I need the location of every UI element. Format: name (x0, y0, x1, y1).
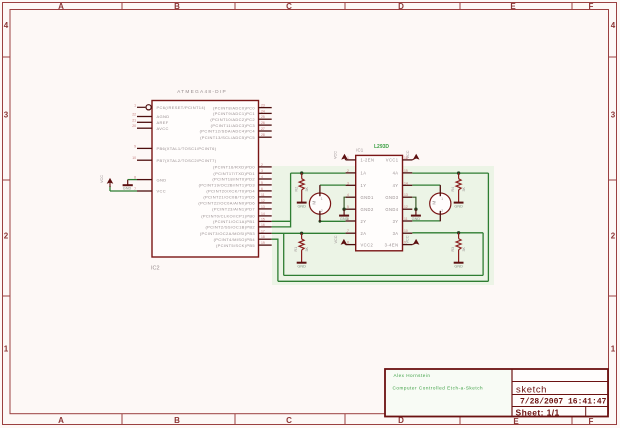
wire PB2 to vertical (272, 173, 291, 227)
frame ticks left (3, 57, 11, 296)
IC2 ATMEGA48 body (152, 101, 259, 258)
svg-text:2: 2 (347, 169, 349, 173)
wire 4A run (412, 172, 488, 174)
svg-text:4: 4 (4, 21, 9, 30)
frame row labels right (611, 21, 616, 354)
IC2 left pins AGND AREF AVCC PB6 PB7 GND VCC (137, 117, 152, 192)
svg-text:7/28/2007 16:41:47: 7/28/2007 16:41:47 (520, 398, 607, 407)
wire 4Y to motor M2 top (412, 184, 440, 186)
wire bus1 lower run (284, 274, 483, 276)
svg-text:GND1: GND1 (361, 195, 374, 200)
VCC arrow at pin 9 (412, 243, 416, 245)
wire GND3-GND4 link (412, 197, 416, 209)
IC1 right pin labels (385, 158, 399, 248)
wire bus2 rise to 4A (487, 173, 489, 281)
svg-text:M: M (311, 201, 316, 205)
ground under R2 (297, 202, 307, 204)
junction dot GND2 (342, 208, 345, 211)
svg-text:GND3: GND3 (385, 195, 398, 200)
svg-text:2: 2 (441, 209, 443, 213)
svg-text:12: 12 (261, 199, 265, 203)
svg-text:(PCINT20/XCK/T0)PD4: (PCINT20/XCK/T0)PD4 (206, 189, 255, 194)
svg-text:18: 18 (261, 235, 265, 239)
svg-text:3K: 3K (462, 187, 466, 192)
svg-text:A: A (58, 416, 64, 425)
svg-text:GND: GND (454, 204, 463, 208)
svg-text:10: 10 (404, 229, 408, 233)
svg-text:C: C (286, 2, 292, 11)
wire PB1 to vertical (272, 220, 291, 222)
svg-text:13: 13 (261, 205, 265, 209)
IC1 left pin labels (361, 158, 375, 248)
svg-text:R3: R3 (451, 247, 455, 252)
svg-text:3Y: 3Y (393, 219, 399, 224)
svg-text:D: D (398, 2, 404, 11)
VCC arrow at pin 8 (344, 243, 345, 245)
svg-text:4A: 4A (393, 171, 399, 176)
svg-text:B: B (174, 416, 180, 425)
svg-text:F: F (589, 417, 594, 426)
svg-text:(PCINT21/OC0B/T1)PD5: (PCINT21/OC0B/T1)PD5 (203, 195, 255, 200)
svg-text:GND: GND (297, 264, 306, 268)
svg-text:3K: 3K (305, 247, 309, 252)
ground symbol under pins 4-5 (343, 209, 345, 215)
svg-text:R4: R4 (451, 187, 455, 192)
svg-text:3: 3 (4, 111, 9, 120)
svg-text:E: E (513, 417, 519, 426)
svg-text:13: 13 (404, 193, 408, 197)
resistor R1 (299, 233, 304, 262)
title block outline (385, 369, 608, 417)
svg-text:1: 1 (321, 197, 323, 201)
svg-text:IC1: IC1 (356, 148, 363, 153)
wire 3A run (412, 232, 483, 234)
IC2 left pin labels (157, 105, 217, 194)
svg-text:AREF: AREF (157, 120, 169, 125)
IC2 right pins PD0-PD7 (259, 167, 272, 209)
junction dot R2 top (300, 171, 303, 174)
svg-text:1: 1 (611, 345, 616, 354)
svg-text:3A: 3A (393, 231, 399, 236)
IC2 right pins PC0-PC5 (259, 108, 272, 138)
svg-text:12: 12 (404, 205, 408, 209)
ground under R1 (297, 262, 307, 264)
svg-text:15: 15 (261, 217, 265, 221)
motor M1 (309, 193, 330, 214)
svg-text:2: 2 (611, 231, 616, 240)
svg-text:2: 2 (261, 163, 263, 167)
svg-text:2: 2 (4, 231, 9, 240)
svg-text:26: 26 (261, 121, 265, 125)
svg-text:16: 16 (261, 223, 265, 227)
svg-text:(PCINT2/SS/OC1B)PB2: (PCINT2/SS/OC1B)PB2 (205, 225, 255, 230)
svg-text:3K: 3K (462, 247, 466, 252)
svg-text:GND4: GND4 (385, 207, 398, 212)
wire PB3 to 2A (272, 232, 346, 234)
supply VCC arrow left of IC2 (109, 186, 111, 191)
svg-text:4: 4 (261, 175, 263, 179)
svg-text:19: 19 (261, 241, 265, 245)
svg-text:3: 3 (611, 111, 616, 120)
svg-text:Computer Controlled Etch-a-Ske: Computer Controlled Etch-a-Sketch (393, 386, 484, 391)
svg-text:(PCINT1/OC1A)PB1: (PCINT1/OC1A)PB1 (213, 219, 255, 224)
frame ticks top (122, 3, 572, 10)
svg-text:L293D: L293D (374, 144, 389, 150)
IC1 right pin numbers (404, 156, 408, 245)
wire vertical from PB3 net down to bus1 (283, 233, 285, 275)
title block row lines (512, 381, 608, 383)
svg-text:sketch: sketch (516, 385, 547, 396)
frame ticks bottom (122, 414, 572, 425)
svg-text:GND2: GND2 (361, 207, 374, 212)
wire bus1 rise to 3A (482, 233, 484, 276)
IC2 pin PC6/RESET (pin 1) with bubble (137, 105, 151, 110)
motor M2 (430, 193, 451, 214)
svg-text:F: F (589, 2, 594, 11)
svg-text:4: 4 (611, 21, 616, 30)
svg-text:VCC2: VCC2 (361, 242, 374, 247)
svg-text:1A: 1A (361, 171, 367, 176)
svg-text:(PCINT12/SDA/ADC4)PC4: (PCINT12/SDA/ADC4)PC4 (200, 129, 256, 134)
svg-text:2Y: 2Y (361, 219, 367, 224)
svg-text:(PCINT19/OC2B/INT1)PD3: (PCINT19/OC2B/INT1)PD3 (199, 183, 256, 188)
svg-text:(PCINT22/OC0A/AIN0)PD6: (PCINT22/OC0A/AIN0)PD6 (198, 201, 255, 206)
svg-text:1-2EN: 1-2EN (361, 158, 375, 163)
svg-text:PB7(XTAL2/TOSC2/PCINT7): PB7(XTAL2/TOSC2/PCINT7) (157, 158, 217, 163)
svg-text:3: 3 (261, 169, 263, 173)
svg-text:(PCINT9/ADC1)PC1: (PCINT9/ADC1)PC1 (213, 111, 255, 116)
svg-text:4: 4 (347, 193, 349, 197)
IC1 right pins 16-9 (403, 160, 413, 245)
junction dot R1 top (300, 232, 303, 235)
junction motor M1 bottom (319, 220, 322, 223)
svg-text:(PCINT11/ADC3)PC3: (PCINT11/ADC3)PC3 (211, 123, 256, 128)
svg-text:(PCINT13/SCL/ADC5)PC5: (PCINT13/SCL/ADC5)PC5 (200, 135, 255, 140)
IC2 left pin numbers (132, 103, 136, 191)
svg-text:VCC1: VCC1 (386, 158, 399, 163)
svg-text:11: 11 (261, 193, 265, 197)
svg-text:9: 9 (134, 144, 136, 148)
IC1 L293D body (356, 155, 403, 250)
svg-text:R1: R1 (294, 247, 298, 252)
svg-text:7: 7 (347, 229, 349, 233)
frame row labels left (4, 21, 9, 354)
junction dot R4 top (457, 171, 460, 174)
IC2 right pins PB0-PB5 (259, 216, 272, 245)
wire bus2 lower run (278, 280, 489, 282)
svg-text:ATMEGA48-DIP: ATMEGA48-DIP (177, 89, 227, 95)
svg-text:GND: GND (297, 204, 306, 208)
svg-text:5: 5 (261, 181, 263, 185)
svg-text:4Y: 4Y (393, 183, 399, 188)
svg-text:R2: R2 (294, 187, 298, 192)
svg-text:IC2: IC2 (151, 266, 160, 272)
svg-text:28: 28 (261, 133, 265, 137)
svg-text:2: 2 (321, 209, 323, 213)
wire 3Y to motor M2 bottom (412, 220, 440, 222)
frame ticks right (609, 57, 618, 296)
svg-text:AVCC: AVCC (157, 126, 169, 131)
svg-text:GND: GND (340, 217, 349, 221)
svg-text:1: 1 (4, 345, 9, 354)
svg-text:M: M (432, 201, 437, 205)
svg-text:(PCINT23/AIN1)PD7: (PCINT23/AIN1)PD7 (212, 207, 255, 212)
svg-text:GND: GND (123, 187, 132, 191)
svg-text:VCC: VCC (405, 235, 409, 243)
IC1 left pins 1-8 (346, 160, 356, 245)
frame column labels bottom (58, 416, 593, 426)
IC2 right pin labels (198, 105, 255, 248)
junction dot GND4 (414, 208, 417, 211)
svg-text:Alex Hornstein: Alex Hornstein (394, 373, 431, 378)
junction dot R3 top (457, 231, 460, 234)
svg-text:1: 1 (441, 197, 443, 201)
svg-text:(PCINT18/INT0)PD2: (PCINT18/INT0)PD2 (212, 177, 255, 182)
svg-text:22: 22 (132, 113, 136, 117)
svg-text:8: 8 (347, 241, 349, 245)
svg-text:25: 25 (261, 115, 265, 119)
svg-text:1: 1 (134, 103, 136, 107)
frame column labels top (58, 2, 593, 11)
ground symbol under pins 13-12 (415, 209, 417, 215)
svg-text:17: 17 (261, 229, 265, 233)
svg-text:(PCINT17/TXD)PD1: (PCINT17/TXD)PD1 (213, 171, 255, 176)
svg-text:B: B (174, 2, 180, 11)
svg-text:A: A (58, 2, 64, 11)
svg-text:11: 11 (404, 217, 408, 221)
VCC arrow at pin 1 (344, 158, 347, 160)
svg-text:C: C (286, 416, 292, 425)
svg-text:1Y: 1Y (361, 183, 367, 188)
svg-text:3-4EN: 3-4EN (385, 242, 399, 247)
title block sheet cell divider (585, 407, 587, 417)
svg-text:Sheet: 1/1: Sheet: 1/1 (516, 408, 560, 418)
svg-text:15: 15 (404, 169, 408, 173)
svg-text:20: 20 (132, 124, 136, 128)
svg-text:PC6(/RESET/PCINT14): PC6(/RESET/PCINT14) (157, 105, 206, 110)
svg-text:24: 24 (261, 109, 265, 113)
pale tint over circuit area (272, 166, 494, 285)
wire motor M1 top to 1Y (320, 184, 346, 186)
wire VCC to IC2 (110, 190, 137, 192)
resistor R4 (456, 173, 461, 202)
resistor R2 (299, 173, 304, 202)
svg-text:GND: GND (157, 177, 167, 182)
wire top run to 1A (291, 172, 346, 174)
wire PB4 to bus2 (272, 239, 278, 281)
svg-text:(PCINT8/ADC0)PC0: (PCINT8/ADC0)PC0 (213, 105, 255, 110)
ground under R4 (454, 202, 464, 204)
svg-text:AGND: AGND (157, 114, 170, 119)
svg-text:VCC: VCC (334, 235, 338, 243)
svg-text:14: 14 (404, 181, 408, 185)
svg-text:14: 14 (261, 212, 265, 216)
svg-text:(PCINT10/ADC2)PC2: (PCINT10/ADC2)PC2 (210, 117, 255, 122)
svg-text:VCC: VCC (100, 175, 104, 183)
title block vertical divider (511, 369, 513, 417)
svg-text:27: 27 (261, 127, 265, 131)
svg-text:VCC: VCC (406, 150, 410, 158)
svg-text:PB6(XTAL1/TOSC1/PCINT6): PB6(XTAL1/TOSC1/PCINT6) (157, 146, 217, 151)
ground under R3 (454, 262, 464, 264)
svg-text:23: 23 (261, 104, 265, 108)
svg-text:5: 5 (347, 205, 349, 209)
ground symbol left of IC2 (123, 180, 133, 186)
svg-text:2A: 2A (361, 231, 367, 236)
svg-text:3K: 3K (305, 187, 309, 192)
IC2 right pin numbers (261, 104, 265, 246)
wire GND to IC2 (128, 179, 137, 181)
IC1 left pin numbers (347, 156, 349, 245)
svg-text:E: E (510, 2, 516, 11)
svg-text:GND: GND (454, 264, 463, 268)
svg-text:6: 6 (261, 187, 263, 191)
resistor R3 (456, 233, 461, 263)
svg-text:3: 3 (347, 181, 349, 185)
svg-text:(PCINT5/SCK)PB5: (PCINT5/SCK)PB5 (216, 243, 255, 248)
svg-text:GND: GND (412, 217, 421, 221)
svg-text:(PCINT4/MISO)PB4: (PCINT4/MISO)PB4 (214, 237, 256, 242)
svg-text:VCC: VCC (334, 151, 338, 159)
wire GND1-GND2 link (344, 197, 346, 209)
svg-text:21: 21 (132, 118, 136, 122)
svg-text:10: 10 (132, 156, 136, 160)
svg-text:(PCINT3/OC2A/MOSI)PB3: (PCINT3/OC2A/MOSI)PB3 (200, 231, 256, 236)
VCC arrow at pin 16 (412, 158, 416, 160)
svg-text:(PCINT0/CLKO/ICP1)PB0: (PCINT0/CLKO/ICP1)PB0 (201, 214, 255, 219)
svg-text:VCC: VCC (157, 189, 167, 194)
wire motor M1 bottom to 2Y (320, 220, 346, 222)
svg-text:(PCINT16/RXD)PD0: (PCINT16/RXD)PD0 (213, 165, 255, 170)
